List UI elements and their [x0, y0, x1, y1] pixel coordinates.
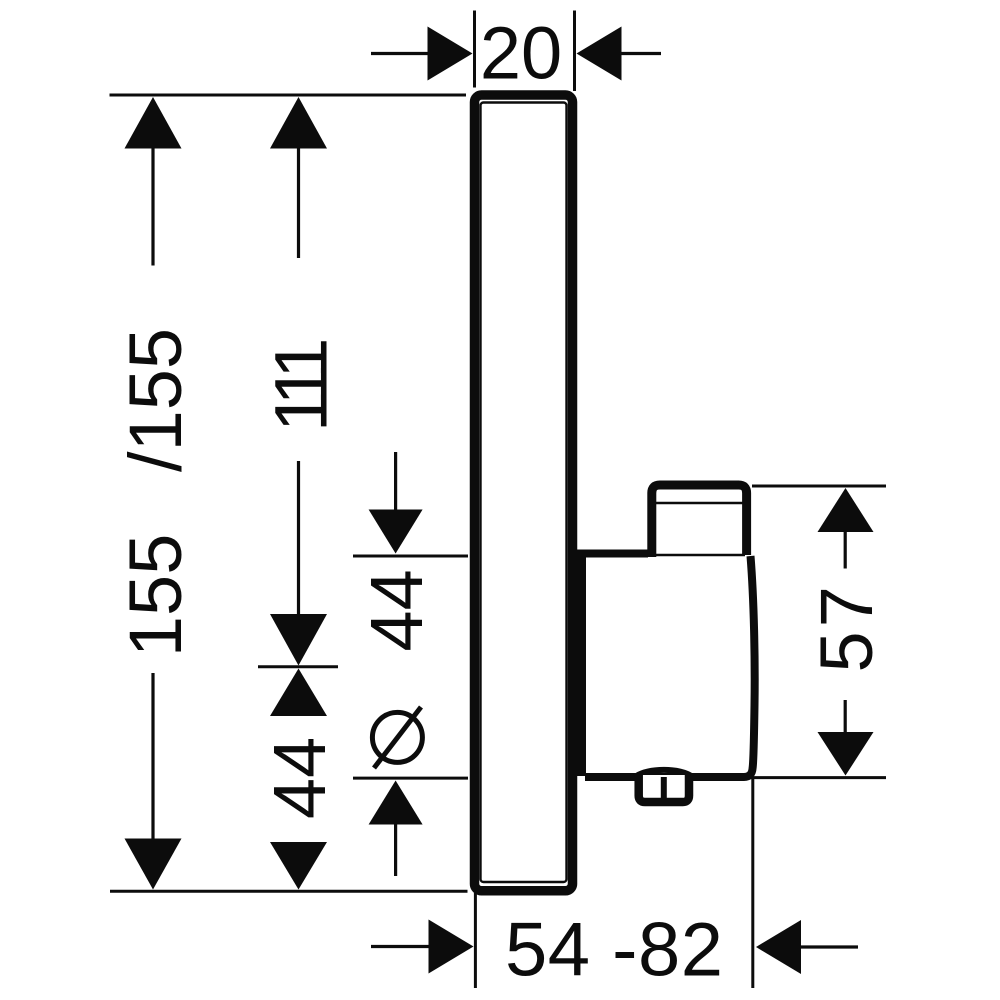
- dim Ø44: upper tick line: [353, 555, 468, 558]
- bottom tab body: [639, 775, 689, 802]
- svg-text:44: 44: [258, 737, 341, 819]
- dim 111: top arrow: [270, 97, 327, 149]
- dim 20: left shaft: [371, 52, 429, 55]
- cap inner line: [650, 502, 748, 505]
- dim Ø44: lower tick line: [353, 777, 468, 780]
- dim 20: right arrow: [577, 27, 622, 81]
- handle body left edge: [576, 551, 586, 776]
- dim Ø44: bottom shaft: [394, 824, 397, 876]
- left bottom extension line: [110, 890, 468, 893]
- dim 54-82: right shaft: [800, 945, 858, 948]
- dim 44 left: upper arrow: [270, 669, 327, 717]
- dim 20: left arrow: [428, 27, 473, 81]
- dim Ø44: diameter symbol circle: [372, 712, 422, 762]
- dim 54-82: left arrow: [429, 920, 474, 974]
- handle body top line: [574, 550, 648, 558]
- dim 57: bottom extension line: [750, 776, 886, 779]
- dim 20: left extension line: [473, 11, 476, 88]
- svg-text:57: 57: [805, 582, 888, 672]
- dim 57: top extension line: [752, 485, 886, 488]
- dim 155/155: bottom arrow: [125, 839, 182, 890]
- dim 44 left: lower arrow: [270, 842, 327, 890]
- dim 155/155: top arrow: [125, 97, 182, 149]
- dim 57: bottom shaft: [844, 700, 847, 732]
- dim 57: top shaft: [844, 532, 847, 569]
- dim Ø44: diameter symbol slash: [374, 707, 421, 768]
- dim 20: right extension line: [573, 11, 576, 92]
- bottom tab arc: [635, 770, 693, 777]
- dim 111: top shaft: [297, 148, 300, 258]
- dim Ø44: top shaft: [394, 452, 397, 511]
- dim 155/155: top shaft: [151, 148, 154, 266]
- svg-text:111: 111: [260, 341, 343, 432]
- bottom tab divider: [661, 777, 667, 800]
- dim 57: top arrow: [818, 488, 874, 532]
- dim 155/155: bottom shaft: [151, 673, 154, 839]
- dim 54-82: left shaft: [371, 945, 429, 948]
- plate inner edge line: [481, 103, 567, 883]
- dim 57: bottom arrow: [818, 732, 874, 776]
- dim 44 left: tick line: [258, 665, 338, 668]
- plate (escutcheon) outer rectangle: [475, 95, 573, 891]
- dim 54-82: left extension line: [474, 893, 477, 988]
- dim 54-82: right arrow: [756, 920, 801, 974]
- handle body right edge and bottom: [585, 556, 755, 777]
- dim 111: bottom arrow: [270, 614, 327, 666]
- svg-text:155 /155: 155 /155: [114, 328, 197, 657]
- thin line under cap: [652, 554, 745, 557]
- dim Ø44: top arrow: [369, 510, 423, 554]
- left top extension line: [110, 94, 467, 97]
- dim 54-82: right extension line: [751, 778, 754, 988]
- svg-text:44: 44: [355, 569, 438, 651]
- dim 20: right shaft: [620, 52, 661, 55]
- handle cap outline: [652, 485, 747, 557]
- svg-text:54 -82: 54 -82: [505, 908, 724, 993]
- dim 111: bottom shaft: [297, 461, 300, 615]
- dim Ø44: bottom arrow: [369, 781, 423, 825]
- svg-text:20: 20: [480, 12, 562, 95]
